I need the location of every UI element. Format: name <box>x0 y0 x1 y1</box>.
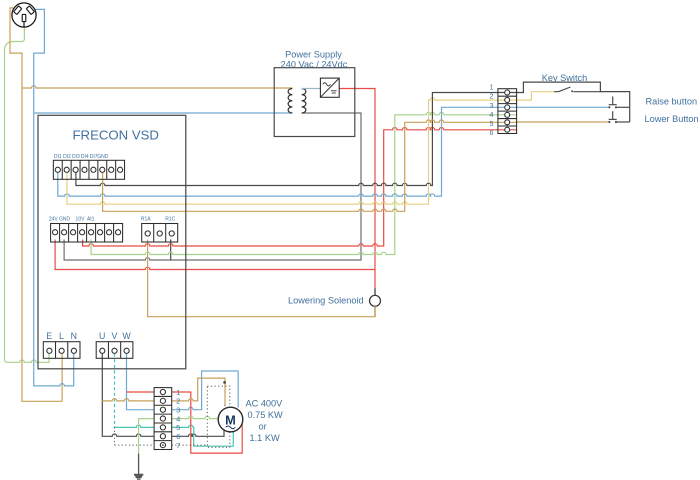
svg-text:6: 6 <box>490 128 494 137</box>
svg-text:5: 5 <box>490 119 494 128</box>
svg-text:R1C: R1C <box>165 217 175 223</box>
svg-text:V: V <box>111 331 117 341</box>
svg-text:U: U <box>99 331 105 341</box>
svg-text:4: 4 <box>490 110 494 119</box>
svg-text:Lowering Solenoid: Lowering Solenoid <box>288 296 364 306</box>
svg-text:3: 3 <box>176 406 180 415</box>
svg-text:0.75 KW: 0.75 KW <box>248 410 284 420</box>
svg-text:2: 2 <box>490 92 494 101</box>
svg-text:Key Switch: Key Switch <box>542 73 587 83</box>
svg-text:L: L <box>59 331 64 341</box>
svg-text:FRECON VSD: FRECON VSD <box>73 128 159 143</box>
svg-text:DI1: DI1 <box>54 154 62 160</box>
svg-text:1: 1 <box>176 388 180 397</box>
svg-text:4: 4 <box>176 414 180 423</box>
svg-text:E: E <box>46 331 52 341</box>
svg-text:or: or <box>259 422 267 432</box>
svg-text:GND: GND <box>97 154 109 160</box>
svg-text:24V: 24V <box>49 217 59 223</box>
svg-text:AI1: AI1 <box>87 217 95 223</box>
svg-text:240 Vac / 24Vdc: 240 Vac / 24Vdc <box>281 60 348 70</box>
svg-text:DI3: DI3 <box>72 154 80 160</box>
svg-text:1.1 KW: 1.1 KW <box>250 433 280 443</box>
svg-text:Raise button: Raise button <box>646 97 698 107</box>
svg-text:DI4: DI4 <box>81 154 89 160</box>
svg-text:AC 400V: AC 400V <box>246 399 284 409</box>
svg-text:N: N <box>71 331 77 341</box>
svg-text:Power Supply: Power Supply <box>285 50 342 60</box>
svg-text:M: M <box>225 412 236 427</box>
svg-text:6: 6 <box>176 432 180 441</box>
svg-text:W: W <box>122 331 131 341</box>
svg-text:7: 7 <box>176 441 180 450</box>
svg-text:1: 1 <box>490 83 494 92</box>
svg-text:2: 2 <box>176 397 180 406</box>
svg-text:R1A: R1A <box>141 217 151 223</box>
svg-text:10V: 10V <box>76 217 86 223</box>
svg-text:DI2: DI2 <box>63 154 71 160</box>
svg-text:3: 3 <box>490 101 494 110</box>
svg-text:Lower Button: Lower Button <box>645 114 699 124</box>
svg-text:GND: GND <box>59 217 71 223</box>
svg-text:5: 5 <box>176 423 180 432</box>
